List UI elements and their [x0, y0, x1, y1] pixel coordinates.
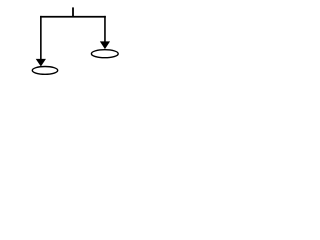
node: left ellipse	[32, 67, 57, 75]
wire: stub from parent (cropped above) down to branch bar	[72, 7, 74, 16]
arrowhead on right edge	[101, 42, 110, 49]
wire: right vertical drop	[104, 16, 106, 43]
arrowhead on left edge	[36, 59, 45, 66]
node: right ellipse	[91, 50, 118, 58]
wire: horizontal branch bar	[40, 16, 106, 18]
wire: left vertical drop	[40, 16, 42, 60]
